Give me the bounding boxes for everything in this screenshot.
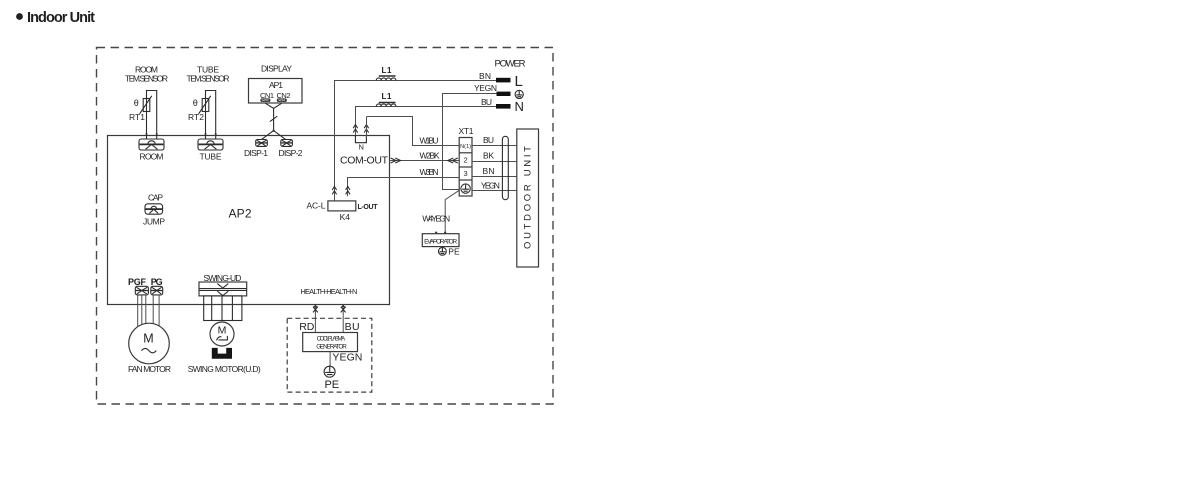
node display split bbox=[273, 130, 275, 132]
svg-text:BK: BK bbox=[483, 151, 494, 161]
connector SWING-UD bbox=[199, 282, 247, 296]
earth symbol plasma PE bbox=[324, 366, 335, 377]
svg-text:θ: θ bbox=[193, 98, 198, 108]
connector arrows K4 left pin bbox=[332, 186, 336, 194]
svg-text:PGF: PGF bbox=[128, 277, 147, 287]
terminal bar earth bbox=[497, 92, 511, 96]
svg-text:M: M bbox=[218, 324, 227, 336]
svg-text:TEM.SENSOR: TEM.SENSOR bbox=[187, 74, 230, 84]
inductor L1 top bbox=[376, 76, 396, 81]
svg-text:θ: θ bbox=[134, 98, 139, 108]
connector CN1 bbox=[260, 98, 270, 102]
connector ROOM bbox=[139, 139, 164, 150]
swing icon bbox=[217, 336, 228, 341]
svg-text:BN: BN bbox=[483, 166, 495, 176]
inductor L1 bottom bbox=[376, 103, 396, 107]
svg-text:DISP-1: DISP-1 bbox=[244, 148, 268, 158]
earth terminal XT1 bbox=[461, 184, 470, 193]
svg-text:COOL PLASMA: COOL PLASMA bbox=[317, 335, 346, 342]
connector DISP-1 bbox=[256, 140, 268, 147]
motor M2 swing bbox=[210, 322, 234, 346]
svg-text:HEALTH-HEALTH-N: HEALTH-HEALTH-N bbox=[300, 287, 357, 296]
connector mark health right bbox=[341, 305, 346, 312]
svg-text:BU: BU bbox=[481, 97, 492, 107]
cable bundle ellipse bbox=[502, 136, 508, 199]
connector TUBE bbox=[198, 139, 223, 150]
evaporator pins bbox=[435, 232, 437, 234]
thermistor RT2 body bbox=[202, 99, 209, 112]
connector N on board bbox=[353, 125, 368, 143]
wire BU outdoor bbox=[472, 145, 517, 147]
bracket swing motor bbox=[212, 348, 232, 359]
wire W3BN bbox=[348, 178, 460, 197]
svg-text:N: N bbox=[515, 99, 524, 114]
connector arrows com-out right bbox=[391, 158, 401, 163]
connector PG bbox=[151, 286, 163, 295]
svg-text:CAP: CAP bbox=[148, 193, 163, 203]
wire health lead right bbox=[342, 304, 344, 333]
svg-text:PG: PG bbox=[151, 277, 163, 287]
wire RT1 sensor loop bbox=[147, 91, 157, 139]
svg-text:M: M bbox=[143, 332, 153, 346]
svg-text:N: N bbox=[358, 143, 363, 152]
svg-text:L: L bbox=[515, 73, 523, 90]
svg-text:SWING-UD: SWING-UD bbox=[203, 273, 241, 283]
cool plasma generator box bbox=[303, 333, 358, 352]
svg-text:W1BU: W1BU bbox=[420, 136, 439, 146]
svg-text:DISPLAY: DISPLAY bbox=[261, 64, 292, 74]
svg-text:DISP-2: DISP-2 bbox=[279, 148, 303, 158]
svg-text:EVAPORATOR: EVAPORATOR bbox=[424, 239, 457, 246]
thermistor RT1 body bbox=[143, 99, 150, 112]
svg-text:N(1): N(1) bbox=[460, 144, 471, 150]
dashed box cool plasma bbox=[287, 318, 372, 392]
thermistor RT2 diagonal bbox=[199, 96, 211, 114]
svg-text:L-OUT: L-OUT bbox=[358, 204, 379, 211]
wire W1BU bbox=[367, 117, 460, 146]
svg-text:TUBE: TUBE bbox=[200, 152, 222, 162]
svg-text:XT1: XT1 bbox=[459, 126, 474, 136]
svg-text:YEGN: YEGN bbox=[474, 83, 497, 93]
relay K4 box bbox=[328, 201, 356, 211]
wire health lead left bbox=[314, 304, 316, 333]
svg-text:ROOM: ROOM bbox=[140, 152, 164, 162]
wire display V converge bbox=[265, 103, 281, 108]
earth symbol power bbox=[515, 90, 523, 98]
wire N pin right bbox=[366, 117, 368, 138]
svg-text:GENERATOR: GENERATOR bbox=[316, 343, 347, 350]
outer dashed border bbox=[97, 48, 554, 405]
connector arrows at terminal 2 bbox=[448, 158, 458, 163]
terminal bar L bbox=[496, 78, 511, 83]
outdoor unit box bbox=[517, 129, 539, 267]
svg-text:AC-L: AC-L bbox=[307, 200, 326, 210]
multiwire slash mark bbox=[270, 116, 277, 121]
wire W4YEGN earth diagonal bbox=[445, 190, 459, 233]
svg-text:RT1: RT1 bbox=[129, 112, 145, 122]
terminal bar N bbox=[496, 104, 511, 109]
node RT1 pins bbox=[146, 133, 148, 135]
svg-text:YEGN: YEGN bbox=[332, 352, 362, 364]
svg-text:BU: BU bbox=[483, 135, 494, 145]
svg-text:TEM.SENSOR: TEM.SENSOR bbox=[125, 74, 168, 84]
connector CN2 bbox=[277, 98, 287, 102]
wire YEGN outdoor bbox=[472, 190, 517, 192]
svg-text:3: 3 bbox=[464, 169, 468, 178]
terminal block XT1 bbox=[459, 138, 472, 197]
svg-text:FAN MOTOR: FAN MOTOR bbox=[128, 364, 171, 374]
svg-text:BN: BN bbox=[479, 71, 491, 81]
svg-text:PE: PE bbox=[448, 246, 460, 256]
svg-text:POWER: POWER bbox=[495, 59, 526, 70]
svg-text:W3BN: W3BN bbox=[420, 167, 439, 177]
svg-text:L1: L1 bbox=[382, 66, 393, 75]
wire RT2 sensor loop bbox=[206, 91, 216, 139]
wire display inverted V bbox=[262, 131, 286, 140]
svg-text:RT2: RT2 bbox=[188, 112, 204, 122]
svg-text:OUTDOOR UNIT: OUTDOOR UNIT bbox=[523, 146, 534, 249]
svg-text:K4: K4 bbox=[340, 212, 351, 222]
title bullet bbox=[16, 13, 23, 20]
svg-text:L1: L1 bbox=[382, 92, 393, 101]
motor M1 fan bbox=[129, 323, 170, 364]
svg-text:PE: PE bbox=[324, 379, 339, 391]
svg-text:JUMP: JUMP bbox=[143, 216, 165, 226]
svg-text:AP1: AP1 bbox=[269, 80, 283, 90]
earth symbol evaporator PE bbox=[439, 247, 447, 255]
wire fan motor leads bbox=[138, 295, 159, 327]
wire BK outdoor bbox=[472, 161, 517, 163]
svg-text:BU: BU bbox=[345, 321, 360, 333]
svg-text:YEGN: YEGN bbox=[481, 180, 500, 190]
connector arrows K4 right pin bbox=[346, 186, 350, 194]
wire W2BK bbox=[389, 160, 459, 162]
thermistor RT1 diagonal bbox=[140, 96, 152, 114]
svg-text:2: 2 bbox=[464, 156, 468, 165]
svg-text:COM-OUT: COM-OUT bbox=[340, 155, 389, 167]
svg-text:SWING MOTOR(U.D): SWING MOTOR(U.D) bbox=[188, 364, 261, 374]
svg-text:W2BK: W2BK bbox=[420, 151, 440, 161]
wire BN line (L phase) bbox=[335, 81, 497, 201]
node RT2 pins bbox=[205, 133, 207, 135]
connector DISP-2 bbox=[281, 140, 293, 147]
wire swing bundle bbox=[204, 296, 242, 321]
wire display vertical bbox=[273, 108, 275, 130]
display board AP1 box bbox=[249, 79, 303, 104]
svg-text:W4YEGN: W4YEGN bbox=[422, 213, 450, 223]
svg-text:AP2: AP2 bbox=[229, 207, 252, 221]
wire YEGN power bbox=[443, 94, 497, 190]
svg-text:Indoor Unit: Indoor Unit bbox=[27, 10, 95, 26]
svg-text:RD: RD bbox=[299, 321, 314, 333]
connector PGF bbox=[135, 286, 148, 295]
evaporator box bbox=[422, 234, 459, 247]
wire BU line (N) bbox=[356, 107, 497, 138]
connector mark health left bbox=[313, 305, 318, 312]
wire BN outdoor bbox=[472, 176, 517, 178]
main board box AP2 bbox=[108, 136, 390, 305]
wire plasma earth bbox=[329, 352, 331, 367]
tilde fan motor bbox=[142, 348, 157, 352]
